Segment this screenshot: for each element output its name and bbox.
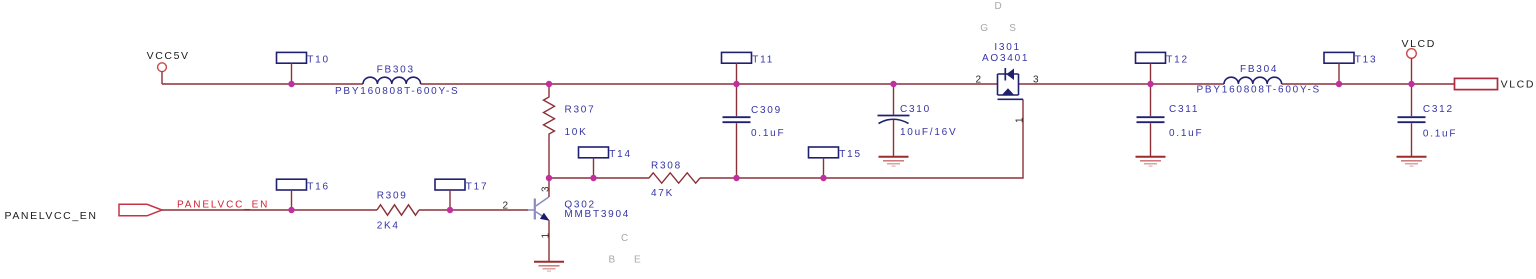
svg-text:T15: T15 [839,149,861,160]
svg-text:PANELVCC_EN: PANELVCC_EN [177,200,269,211]
svg-text:R307: R307 [565,105,596,116]
node T11/C309 [733,81,739,87]
svg-text:0.1uF: 0.1uF [751,128,785,139]
wire top rail segment 1 [162,83,363,85]
svg-text:I301: I301 [994,42,1020,53]
node R307 top [546,81,552,87]
resistor R308 [649,160,700,199]
test point T14 [579,147,632,178]
svg-text:T13: T13 [1355,55,1377,66]
wire Q302 collector [548,178,550,197]
wire panel net left [162,209,377,211]
test point T16 [277,179,330,210]
svg-text:VLCD: VLCD [1501,79,1535,91]
svg-text:R309: R309 [377,191,408,202]
svg-text:T11: T11 [752,55,774,66]
svg-text:R308: R308 [651,160,682,171]
svg-text:T14: T14 [609,149,631,160]
svg-text:2: 2 [976,75,982,86]
resistor R307 [544,84,596,178]
test point T17 [435,179,488,210]
test point T10 [277,52,330,84]
svg-text:C310: C310 [900,104,931,115]
node T13 [1336,81,1342,87]
svg-text:C309: C309 [751,105,782,116]
power symbol VCC5V [147,50,190,71]
svg-text:FB304: FB304 [1240,64,1278,75]
svg-text:47K: 47K [651,188,674,199]
transistor Q302 [528,197,630,221]
svg-text:E: E [634,255,641,266]
node C310 [890,81,896,87]
node T15 [820,175,826,181]
ferrite bead FB303 [335,65,459,98]
test point T11 [722,52,775,84]
capacitor C309 [723,84,786,178]
ground under Q302 [534,262,564,271]
capacitor C311 [1137,84,1204,157]
node VLCD [1408,81,1414,87]
svg-text:0.1uF: 0.1uF [1423,129,1457,140]
test point T13 [1324,52,1377,84]
svg-text:B: B [609,255,616,266]
test point T15 [809,147,862,178]
node R307 bottom [546,175,552,181]
svg-text:FB303: FB303 [377,65,415,76]
wire top rail segment 2 [421,83,998,85]
wire gate net left [549,177,649,179]
svg-text:MMBT3904: MMBT3904 [564,209,630,220]
svg-text:D: D [995,1,1002,12]
wire top rail segment 4 [1282,83,1455,85]
wire VCC5V drop [161,72,163,84]
wire VLCD drop [1411,58,1413,84]
resistor R309 [377,191,419,232]
node T10/rail [288,81,294,87]
test point T12 [1136,52,1189,84]
node T17 [447,207,453,213]
svg-text:G: G [980,23,988,34]
ground under C312 [1397,157,1427,166]
capacitor C312 [1398,84,1458,157]
svg-text:AO3401: AO3401 [982,53,1029,64]
wire panel net right [419,209,528,211]
svg-text:2K4: 2K4 [377,221,400,232]
svg-text:0.1uF: 0.1uF [1169,128,1203,139]
svg-text:C311: C311 [1169,104,1199,115]
svg-text:10uF/16V: 10uF/16V [900,127,957,138]
svg-text:C312: C312 [1423,104,1454,115]
svg-text:PANELVCC_EN: PANELVCC_EN [5,210,98,222]
node C309 bottom [733,175,739,181]
node T14 [590,175,596,181]
svg-text:VLCD: VLCD [1402,38,1436,50]
svg-text:T10: T10 [307,55,329,66]
svg-text:T12: T12 [1166,55,1188,66]
wire Q302 emitter [548,220,550,261]
ferrite bead FB304 [1197,64,1321,96]
ground under C311 [1136,157,1166,166]
capacitor C310 (polarized) [878,84,958,157]
svg-text:3: 3 [1033,75,1039,86]
svg-text:T16: T16 [307,181,329,192]
wire top rail segment 3 [1019,83,1225,85]
svg-text:C: C [621,233,628,244]
svg-text:10K: 10K [565,127,588,138]
svg-text:1: 1 [1015,117,1026,123]
port PANELVCC_EN [5,204,163,222]
svg-text:T17: T17 [466,181,488,192]
port VLCD [1455,78,1536,90]
ground under C310 [879,157,909,166]
mosfet I301 [982,42,1029,99]
node T12/C311 [1147,81,1153,87]
node T16 [288,207,294,213]
svg-text:PBY160808T-600Y-S: PBY160808T-600Y-S [1197,85,1321,96]
svg-text:VCC5V: VCC5V [147,50,190,62]
wire gate net right [700,99,1023,178]
power symbol VLCD [1402,38,1436,58]
svg-text:S: S [1009,23,1016,34]
svg-text:PBY160808T-600Y-S: PBY160808T-600Y-S [335,86,459,97]
svg-text:2: 2 [503,201,509,212]
